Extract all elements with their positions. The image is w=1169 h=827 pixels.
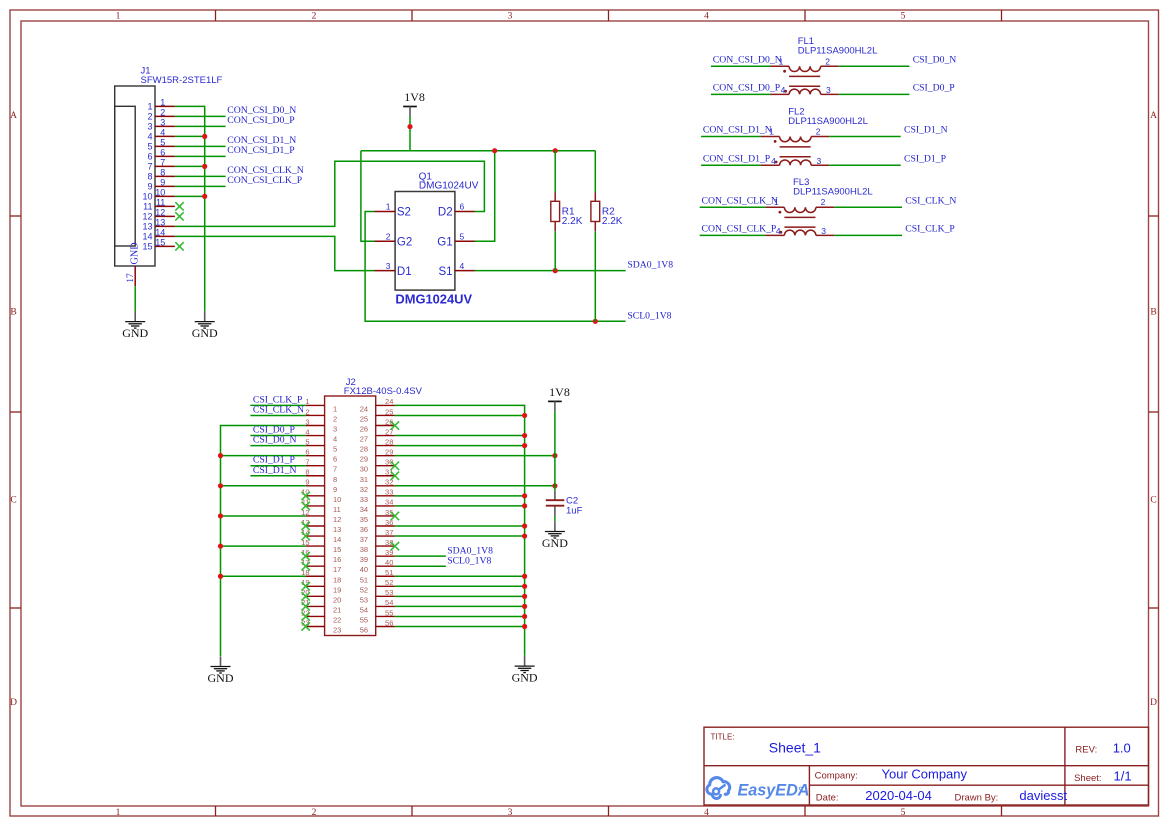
svg-text:5: 5 [147,141,152,151]
svg-text:D1: D1 [397,266,412,278]
svg-text:38: 38 [360,545,368,554]
svg-text:D: D [10,698,17,708]
svg-text:12: 12 [333,515,341,524]
svg-text:5: 5 [305,437,309,446]
svg-text:40: 40 [385,558,393,567]
svg-text:GND: GND [512,671,538,685]
svg-text:CSI_CLK_N: CSI_CLK_N [905,195,956,206]
svg-text:16: 16 [333,555,341,564]
svg-text:DLP11SA900HL2L: DLP11SA900HL2L [788,116,868,127]
svg-text:28: 28 [360,445,368,454]
svg-text:8: 8 [160,167,165,177]
svg-text:1: 1 [116,12,121,22]
svg-text:2: 2 [821,197,826,207]
svg-text:S1: S1 [439,266,453,278]
svg-text:31: 31 [360,475,368,484]
svg-text:5: 5 [160,137,165,147]
svg-text:GND: GND [192,326,218,340]
svg-text:4: 4 [333,435,337,444]
svg-text:28: 28 [385,437,393,446]
svg-text:6: 6 [333,455,337,464]
svg-text:13: 13 [333,525,341,534]
svg-text:13: 13 [155,217,165,227]
svg-text:8: 8 [147,171,152,181]
svg-text:3: 3 [817,156,822,166]
svg-text:Sheet:: Sheet: [1074,773,1101,784]
svg-text:1: 1 [386,202,391,212]
svg-text:CON_CSI_D1_P: CON_CSI_D1_P [227,145,294,156]
svg-text:54: 54 [360,605,368,614]
svg-text:4: 4 [147,131,152,141]
svg-text:SFW15R-2STE1LF: SFW15R-2STE1LF [141,75,223,86]
svg-text:20: 20 [333,595,341,604]
svg-text:CON_CSI_D0_N: CON_CSI_D0_N [713,55,782,66]
svg-text:39: 39 [360,555,368,564]
svg-text:5: 5 [460,231,465,241]
svg-text:51: 51 [385,568,393,577]
svg-text:15: 15 [155,237,165,247]
svg-text:56: 56 [385,618,393,627]
svg-text:5: 5 [333,445,337,454]
svg-text:1.0: 1.0 [1113,741,1131,756]
svg-text:33: 33 [360,495,368,504]
svg-text:1: 1 [116,808,121,818]
svg-text:3: 3 [333,425,337,434]
svg-text:CON_CSI_CLK_N: CON_CSI_CLK_N [702,195,778,206]
svg-text:10: 10 [333,495,341,504]
svg-text:2: 2 [333,414,337,423]
svg-text:26: 26 [360,425,368,434]
svg-text:4: 4 [771,156,776,166]
svg-text:7: 7 [147,161,152,171]
svg-text:CON_CSI_D1_N: CON_CSI_D1_N [703,125,772,136]
svg-text:24: 24 [360,404,368,413]
svg-text:3: 3 [386,261,391,271]
svg-text:3: 3 [160,117,165,127]
svg-text:1: 1 [160,97,165,107]
svg-text:CON_CSI_D0_P: CON_CSI_D0_P [227,115,294,126]
svg-text:DLP11SA900HL2L: DLP11SA900HL2L [798,46,878,57]
svg-text:9: 9 [160,177,165,187]
svg-text:10: 10 [155,187,165,197]
svg-text:53: 53 [360,595,368,604]
svg-text:21: 21 [333,605,341,614]
svg-text:14: 14 [142,231,152,241]
svg-text:1: 1 [333,404,337,413]
svg-text:CSI_CLK_N: CSI_CLK_N [253,404,304,415]
svg-text:Sheet_1: Sheet_1 [769,740,821,756]
svg-text:9: 9 [147,181,152,191]
svg-text:33: 33 [385,488,393,497]
svg-text:24: 24 [385,397,393,406]
svg-text:1V8: 1V8 [404,90,425,104]
svg-text:25: 25 [360,414,368,423]
svg-text:4: 4 [704,12,709,22]
svg-text:CON_CSI_D0_P: CON_CSI_D0_P [713,83,780,94]
svg-text:11: 11 [333,505,341,514]
svg-text:8: 8 [305,468,309,477]
svg-text:53: 53 [385,588,393,597]
svg-text:4: 4 [305,427,309,436]
svg-text:10: 10 [142,191,152,201]
svg-text:40: 40 [360,565,368,574]
svg-text:CSI_D1_N: CSI_D1_N [904,125,948,136]
svg-text:2: 2 [147,111,152,121]
svg-text:2020-04-04: 2020-04-04 [865,788,932,803]
svg-text:7: 7 [333,465,337,474]
svg-text:3: 3 [508,12,513,22]
svg-text:4: 4 [160,127,165,137]
svg-text:1: 1 [147,101,152,111]
svg-text:3: 3 [147,121,152,131]
svg-text:17: 17 [126,273,136,283]
svg-text:CSI_D0_P: CSI_D0_P [913,83,955,94]
svg-text:1uF: 1uF [566,505,583,516]
svg-text:CON_CSI_CLK_P: CON_CSI_CLK_P [227,175,302,186]
svg-text:4: 4 [704,808,709,818]
svg-text:Your Company: Your Company [882,767,968,782]
svg-text:GND: GND [130,242,141,264]
svg-text:B: B [1150,308,1156,318]
svg-text:DMG1024UV: DMG1024UV [395,291,472,306]
svg-text:2: 2 [386,231,391,241]
svg-text:Drawn By:: Drawn By: [955,792,999,803]
svg-text:3: 3 [821,226,826,236]
svg-text:2.2K: 2.2K [602,216,623,227]
svg-text:CON_CSI_CLK_P: CON_CSI_CLK_P [702,224,777,235]
svg-text:56: 56 [360,626,368,635]
svg-text:30: 30 [360,465,368,474]
svg-text:A: A [10,111,17,121]
svg-text:A: A [1150,111,1157,121]
svg-text:GND: GND [542,536,568,550]
svg-text:CSI_D0_N: CSI_D0_N [913,55,957,66]
svg-text:C: C [1150,496,1156,506]
svg-text:6: 6 [305,447,309,456]
svg-text:36: 36 [360,525,368,534]
svg-text:5: 5 [901,12,906,22]
svg-text:C: C [10,496,16,506]
svg-text:SCL0_1V8: SCL0_1V8 [447,555,491,566]
svg-text:6: 6 [147,151,152,161]
svg-text:55: 55 [360,615,368,624]
svg-text:34: 34 [360,505,368,514]
svg-text:2: 2 [825,56,830,66]
svg-text:22: 22 [333,615,341,624]
svg-text:7: 7 [160,157,165,167]
svg-text:12: 12 [142,211,152,221]
svg-text:D2: D2 [438,207,453,219]
svg-text:2: 2 [312,808,317,818]
svg-text:CSI_D1_P: CSI_D1_P [904,153,946,164]
svg-text:34: 34 [385,498,393,507]
svg-text:3: 3 [826,85,831,95]
svg-text:G1: G1 [437,236,452,248]
svg-text:3: 3 [305,417,309,426]
svg-text:17: 17 [333,565,341,574]
svg-text:5: 5 [901,808,906,818]
svg-text:TITLE:: TITLE: [711,733,735,742]
svg-text:D: D [1150,698,1157,708]
svg-text:32: 32 [360,485,368,494]
svg-text:CSI_D0_N: CSI_D0_N [253,435,297,446]
svg-text:19: 19 [333,585,341,594]
svg-text:25: 25 [385,407,393,416]
svg-text:CON_CSI_D1_P: CON_CSI_D1_P [703,153,770,164]
svg-text:29: 29 [385,447,393,456]
svg-text:G2: G2 [397,236,412,248]
svg-text:12: 12 [155,207,165,217]
svg-text:2: 2 [816,127,821,137]
svg-text:13: 13 [142,221,152,231]
svg-text:3: 3 [508,808,513,818]
svg-text:B: B [10,308,16,318]
svg-text:11: 11 [156,197,165,207]
svg-text:8: 8 [333,475,337,484]
svg-text:GND: GND [122,326,148,340]
svg-text:55: 55 [385,608,393,617]
svg-text:15: 15 [333,545,341,554]
svg-text:1V8: 1V8 [549,385,570,399]
svg-text:52: 52 [360,585,368,594]
svg-text:4: 4 [460,261,465,271]
svg-text:7: 7 [305,458,309,467]
svg-text:CSI_D1_N: CSI_D1_N [253,465,297,476]
svg-text:2: 2 [160,107,165,117]
svg-text:2: 2 [305,407,309,416]
svg-text:1: 1 [305,397,309,406]
svg-text:52: 52 [385,578,393,587]
svg-text:51: 51 [360,575,368,584]
svg-text:37: 37 [385,528,393,537]
svg-text:SDA0_1V8: SDA0_1V8 [627,259,673,270]
svg-text:27: 27 [360,435,368,444]
svg-text:15: 15 [142,241,152,251]
svg-text:35: 35 [360,515,368,524]
svg-text:37: 37 [360,535,368,544]
svg-text:S2: S2 [397,207,411,219]
svg-text:CSI_CLK_P: CSI_CLK_P [905,224,955,235]
svg-text:GND: GND [208,671,234,685]
svg-text:DLP11SA900HL2L: DLP11SA900HL2L [793,187,873,198]
svg-text:14: 14 [333,535,341,544]
svg-text:1/1: 1/1 [1114,769,1132,784]
svg-text:9: 9 [305,478,309,487]
svg-text:EasyEDA: EasyEDA [738,782,810,800]
svg-text:daviesst: daviesst [1019,788,1067,803]
svg-text:14: 14 [155,227,165,237]
svg-text:23: 23 [333,626,341,635]
svg-text:4: 4 [781,85,786,95]
svg-text:SCL0_1V8: SCL0_1V8 [627,310,671,321]
svg-text:54: 54 [385,598,393,607]
svg-text:6: 6 [160,147,165,157]
svg-text:REV:: REV: [1075,744,1097,755]
svg-text:29: 29 [360,455,368,464]
svg-text:Date:: Date: [816,792,839,803]
svg-text:18: 18 [333,575,341,584]
svg-text:2.2K: 2.2K [562,216,583,227]
svg-text:4: 4 [776,226,781,236]
svg-text:9: 9 [333,485,337,494]
svg-text:Company:: Company: [815,770,858,781]
svg-text:DMG1024UV: DMG1024UV [419,181,479,192]
svg-text:6: 6 [460,202,465,212]
svg-text:11: 11 [143,201,152,211]
svg-text:2: 2 [312,12,317,22]
